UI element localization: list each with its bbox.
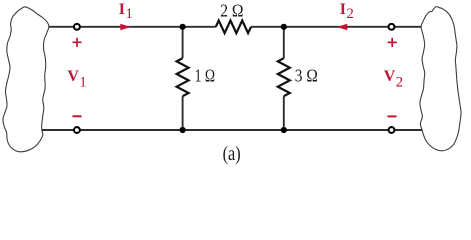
resistor 3-ohm (shunt, right): [278, 58, 290, 96]
minus sign port 2: [388, 115, 397, 117]
wire: vertical upper lead of 1-ohm: [182, 27, 184, 58]
wire: top right (2-ohm resistor to blob): [251, 26, 422, 28]
plus sign port 2: [388, 38, 397, 47]
minus sign port 1: [73, 115, 82, 117]
current arrow I1: [120, 24, 131, 31]
terminal port 1 upper: [74, 24, 80, 30]
terminal port 2 upper: [389, 24, 395, 30]
junction dot bottom-left node: [180, 127, 186, 133]
external network blob (left): [3, 7, 49, 152]
terminal port 1 lower: [74, 127, 80, 133]
wire: vertical upper lead of 3-ohm: [283, 27, 285, 58]
external network blob (right): [420, 7, 461, 151]
wire: vertical lower lead of 3-ohm: [283, 96, 285, 130]
junction dot top-left node: [180, 24, 186, 30]
terminal port 2 lower: [389, 127, 395, 133]
junction dot bottom-right node: [281, 127, 287, 133]
wire: top left (blob to 2-ohm resistor): [49, 26, 216, 28]
svg-text:1 Ω: 1 Ω: [195, 66, 216, 86]
resistor 2-ohm (series, top): [216, 20, 251, 33]
wire: bottom: [42, 129, 422, 131]
plus sign port 1: [72, 38, 81, 47]
resistor 1-ohm (shunt, left): [177, 58, 189, 96]
svg-text:3 Ω: 3 Ω: [295, 66, 318, 86]
current arrow I2: [337, 24, 348, 31]
wire: vertical lower lead of 1-ohm: [182, 96, 184, 130]
svg-text:2 Ω: 2 Ω: [220, 1, 243, 21]
junction dot top-right node: [281, 24, 287, 30]
svg-text:(a): (a): [223, 143, 241, 165]
